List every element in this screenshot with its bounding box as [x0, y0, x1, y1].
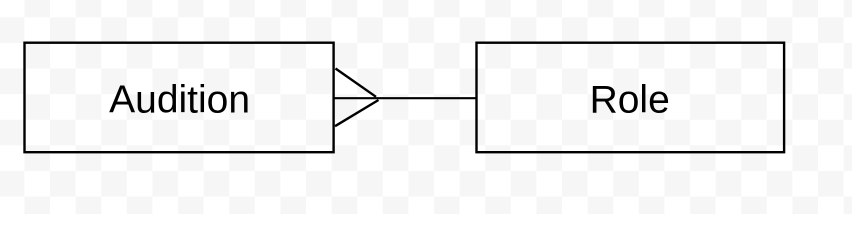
entity Role: [477, 43, 785, 153]
wire: relationship connector line: [334, 97, 477, 99]
svg-text:Audition: Audition: [109, 79, 250, 122]
entity Audition: [25, 43, 334, 153]
svg-text:Role: Role: [590, 79, 670, 122]
crow's foot (many) lower prong: [335, 100, 379, 126]
crow's foot (many) upper prong: [336, 69, 377, 97]
